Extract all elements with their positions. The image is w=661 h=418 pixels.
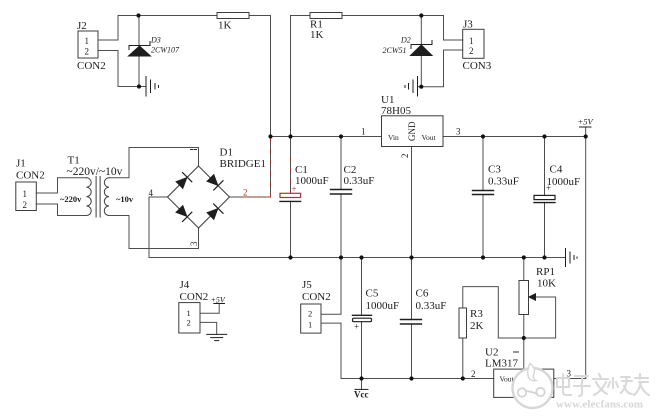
svg-text:2: 2 bbox=[400, 154, 410, 159]
wire J5 pin2 up to ground rail bbox=[321, 258, 341, 315]
svg-text:2CW51: 2CW51 bbox=[383, 46, 407, 55]
svg-text:C4: C4 bbox=[550, 164, 563, 176]
svg-text:1000uF: 1000uF bbox=[295, 175, 329, 187]
node gnd C5 bbox=[359, 255, 363, 259]
node rail C2 bbox=[339, 134, 343, 138]
svg-text:1K: 1K bbox=[218, 20, 232, 32]
capacitor C1 plates (highlighted red) bbox=[280, 193, 301, 201]
svg-text:D1: D1 bbox=[220, 147, 233, 159]
svg-text:0.33uF: 0.33uF bbox=[344, 175, 375, 187]
wire U2 ADJ pin bbox=[523, 338, 525, 369]
svg-text:2: 2 bbox=[85, 47, 90, 57]
wire J2 pin1 to top rail bbox=[98, 16, 118, 41]
svg-text:78H05: 78H05 bbox=[381, 105, 411, 117]
svg-text:CON2: CON2 bbox=[77, 60, 106, 72]
wire C3 bottom bbox=[482, 195, 484, 258]
svg-text:2: 2 bbox=[23, 200, 28, 210]
wire rail U1 pin1 bbox=[271, 136, 382, 138]
node +5V bbox=[584, 134, 588, 138]
bridge diode top-right bar bbox=[214, 181, 223, 190]
watermark char 电 bbox=[557, 374, 571, 395]
wire ADJ node horizontal bbox=[498, 337, 555, 339]
svg-text:1: 1 bbox=[23, 189, 28, 199]
node Vcc R3 bbox=[461, 376, 465, 380]
wire Vcc symbol drop bbox=[361, 379, 363, 390]
ground GND2 (earth, D2) bbox=[417, 77, 419, 97]
resistor R1 bbox=[310, 13, 342, 19]
wire red highlight bridge output bbox=[243, 196, 271, 198]
watermark char 发 bbox=[593, 374, 608, 395]
node D2 bottom bbox=[419, 85, 423, 89]
connector J4 bbox=[179, 303, 200, 333]
svg-text:0.33uF: 0.33uF bbox=[488, 176, 519, 188]
node rail C4 bbox=[542, 134, 546, 138]
wire C6 bottom bbox=[411, 324, 413, 379]
wire R1 left drop to C1 bbox=[291, 16, 311, 194]
bridge pin number 1 tick bbox=[191, 149, 197, 151]
wire R3 bottom bbox=[462, 338, 464, 379]
wire bridge top to transformer secondary top bbox=[109, 148, 199, 178]
svg-text:CON2: CON2 bbox=[16, 170, 45, 182]
watermark logo flame bbox=[528, 364, 536, 381]
wire Vcc bottom rail bbox=[341, 378, 494, 380]
potentiometer RP1 wiper arrow bbox=[529, 294, 536, 300]
wire J4 pin2 to ground bbox=[200, 322, 217, 334]
wire C4 bottom bbox=[544, 202, 546, 257]
svg-text:+: + bbox=[292, 184, 297, 194]
connector J2 bbox=[78, 31, 98, 58]
node gnd C1 bbox=[288, 255, 292, 259]
svg-text:3: 3 bbox=[189, 241, 199, 246]
svg-text:D2: D2 bbox=[400, 36, 411, 45]
wire C6 top bbox=[411, 258, 413, 320]
bridge diode bottom-left bar bbox=[183, 212, 192, 221]
bridge diode top-left bar bbox=[183, 173, 192, 182]
IC U1 78H05 box bbox=[382, 116, 444, 147]
power symbol +5V (top right) bar bbox=[580, 126, 592, 128]
watermark char 子 bbox=[574, 376, 590, 396]
watermark logo diagonal bbox=[526, 391, 538, 394]
connector J5 bbox=[301, 304, 321, 333]
wire U2 pin3 bbox=[554, 378, 586, 380]
connector J1 bbox=[16, 182, 37, 211]
svg-text:3: 3 bbox=[456, 127, 461, 137]
svg-text:2K: 2K bbox=[470, 320, 484, 332]
watermark char 烧 bbox=[608, 377, 632, 394]
node Vcc C6 bbox=[409, 376, 413, 380]
wire C5 bottom bbox=[361, 322, 363, 379]
svg-text:~220v/~10v: ~220v/~10v bbox=[67, 166, 123, 178]
wire R3 top branch bbox=[463, 287, 499, 338]
capacitor C2 plates bbox=[331, 190, 352, 195]
wire J2 pin2 to D3 bottom bbox=[98, 51, 139, 87]
svg-text:~220v: ~220v bbox=[60, 194, 82, 204]
wire C1 bottom bbox=[290, 201, 292, 257]
wire C4 top bbox=[544, 137, 546, 196]
watermark logo circle bbox=[513, 368, 553, 408]
bridge diode bottom-right bbox=[206, 208, 218, 220]
wire C3 top bbox=[482, 137, 484, 191]
svg-text:J4: J4 bbox=[180, 279, 190, 291]
resistor 1K (top left) bbox=[217, 13, 249, 19]
svg-text:CON3: CON3 bbox=[463, 60, 492, 72]
bridge diode top-left bbox=[175, 177, 187, 189]
svg-text:C5: C5 bbox=[366, 288, 379, 300]
potentiometer RP1 body bbox=[519, 281, 529, 315]
svg-text:1: 1 bbox=[308, 320, 312, 330]
wire C2 bottom bbox=[340, 194, 342, 258]
svg-text:0.33uF: 0.33uF bbox=[416, 300, 447, 312]
node gnd C2/J5 bbox=[339, 255, 343, 259]
svg-text:J1: J1 bbox=[16, 158, 26, 170]
svg-text:D3: D3 bbox=[150, 36, 161, 45]
svg-text:1000uF: 1000uF bbox=[547, 176, 581, 188]
svg-text:1: 1 bbox=[85, 36, 90, 46]
svg-text:Vout: Vout bbox=[422, 133, 437, 142]
svg-text:Vcc: Vcc bbox=[354, 390, 369, 400]
wire J3 pin1 bbox=[444, 16, 463, 41]
wire right vertical +5V to U2 pin3 bbox=[585, 137, 587, 379]
wire C5 top bbox=[361, 258, 363, 316]
watermark logo small circle left bbox=[518, 388, 526, 396]
svg-text:1000uF: 1000uF bbox=[366, 300, 400, 312]
bridge diode bottom-left bbox=[175, 205, 187, 217]
svg-text:GND: GND bbox=[407, 121, 417, 141]
wire R1 right to J3 branch bbox=[342, 15, 444, 17]
svg-text:C3: C3 bbox=[488, 164, 501, 176]
U2 ADJ pin1 tick bbox=[514, 351, 519, 353]
ground GND4 (signal ground, J4) bbox=[207, 333, 227, 335]
svg-text:+: + bbox=[354, 322, 359, 332]
wire red highlight rise to rail bbox=[270, 137, 272, 197]
wire RP1 bottom bbox=[523, 315, 525, 339]
svg-text:CON2: CON2 bbox=[180, 291, 209, 303]
svg-text:Vin: Vin bbox=[388, 133, 399, 142]
node top rail / D3 bbox=[136, 13, 140, 17]
node Vcc C5 bbox=[359, 376, 363, 380]
svg-text:J3: J3 bbox=[463, 19, 473, 31]
IC U2 LM317 box bbox=[494, 369, 554, 397]
svg-text:J2: J2 bbox=[77, 20, 87, 32]
svg-text:10K: 10K bbox=[537, 278, 556, 290]
node rail x270 bbox=[268, 134, 272, 138]
power symbol Vcc bar bbox=[355, 388, 368, 390]
wire J1 pin1 to primary top bbox=[36, 178, 86, 193]
wire red highlight C1 feed bbox=[290, 158, 292, 193]
node gnd C4 bbox=[542, 255, 546, 259]
svg-text:T1: T1 bbox=[68, 155, 80, 167]
transformer T1 secondary winding bbox=[104, 178, 109, 216]
node D3 bottom bbox=[137, 84, 141, 88]
node gnd U1pin2/C6 bbox=[409, 255, 413, 259]
svg-text:1K: 1K bbox=[310, 29, 324, 41]
svg-text:www.elecfans.com: www.elecfans.com bbox=[556, 399, 643, 411]
transformer T1 primary winding bbox=[87, 177, 110, 218]
svg-text:2: 2 bbox=[308, 309, 312, 319]
svg-text:1: 1 bbox=[187, 308, 191, 318]
wire node2 red rise bbox=[270, 137, 272, 198]
wire D2 bottom bbox=[420, 56, 422, 87]
node ADJ bbox=[522, 336, 526, 340]
svg-text:2CW107: 2CW107 bbox=[151, 46, 180, 55]
wire stub to ground GND2 bbox=[418, 86, 422, 88]
wire U1 pin2 to ground rail bbox=[411, 147, 413, 258]
svg-text:2: 2 bbox=[469, 46, 474, 56]
wire J1 pin2 to primary bottom bbox=[36, 204, 86, 216]
capacitor C6 plates bbox=[401, 320, 422, 325]
connector J3 bbox=[463, 29, 484, 58]
svg-text:RP1: RP1 bbox=[536, 266, 555, 278]
capacitor C4 plates bbox=[534, 195, 555, 202]
bridge D1 diamond edges bbox=[168, 166, 230, 228]
transformer T1 core bbox=[95, 177, 97, 218]
watermark char 友 bbox=[634, 374, 649, 395]
capacitor C5 plates bbox=[353, 315, 372, 321]
ground GND3 (earth, right end of ground rail) bbox=[565, 249, 567, 267]
wire RP1 top to ground rail bbox=[523, 258, 525, 281]
node gnd RP1 bbox=[522, 255, 526, 259]
svg-text:C6: C6 bbox=[416, 288, 429, 300]
svg-text:1: 1 bbox=[469, 36, 474, 46]
wire bridge bottom node 3 to secondary bottom bbox=[109, 216, 199, 249]
svg-text:1: 1 bbox=[361, 127, 366, 137]
wire top rail to 1K bbox=[118, 15, 217, 17]
svg-text:2: 2 bbox=[243, 188, 248, 198]
svg-text:+: + bbox=[546, 183, 551, 193]
resistor R3 bbox=[459, 308, 467, 338]
bridge diode top-right bbox=[206, 174, 218, 186]
svg-text:R3: R3 bbox=[470, 308, 483, 320]
svg-text:LM317: LM317 bbox=[485, 358, 519, 370]
wire RP1 wiper bbox=[534, 297, 556, 338]
wire 1K right to drop bbox=[249, 16, 271, 137]
wire C2 top bbox=[340, 137, 342, 190]
wire J3 pin2 to D2 bottom bbox=[421, 50, 462, 87]
svg-text:+5V: +5V bbox=[211, 296, 226, 305]
wire bridge right vertex node 2 bbox=[230, 196, 271, 198]
svg-text:2: 2 bbox=[471, 369, 476, 379]
ground GND1 (earth, D3) bbox=[145, 77, 147, 97]
node gnd C3 bbox=[481, 255, 485, 259]
wire stub to ground GND1 bbox=[139, 86, 146, 88]
svg-text:J5: J5 bbox=[302, 279, 312, 291]
wire ground rail bbox=[149, 257, 566, 259]
bridge diode bottom-right bar bbox=[214, 204, 223, 213]
zener diode D2 bbox=[411, 45, 433, 56]
power symbol +5V (J4) bar bbox=[214, 303, 225, 305]
svg-text:CON2: CON2 bbox=[302, 291, 331, 303]
wire +5V drop bbox=[585, 127, 587, 137]
zener diode D3 bbox=[129, 46, 151, 56]
wire J5 pin1 down to Vcc rail bbox=[321, 323, 341, 378]
node top rail / D2 bbox=[419, 13, 423, 17]
wire D3 bottom bbox=[138, 56, 140, 87]
svg-text:~10v: ~10v bbox=[116, 194, 134, 204]
wire D3 top bbox=[138, 16, 140, 46]
watermark logo small circle right bbox=[536, 388, 544, 396]
svg-text:2: 2 bbox=[187, 318, 191, 328]
node rail C3 bbox=[481, 134, 485, 138]
svg-text:4: 4 bbox=[149, 188, 154, 198]
wire D2 top bbox=[420, 16, 422, 45]
wire J4 pin1 to +5V bbox=[200, 304, 219, 314]
wire rail U1 pin3 to +5V bbox=[443, 136, 586, 138]
wire bridge left vertex node 4 bbox=[149, 197, 168, 258]
capacitor C3 plates bbox=[473, 191, 494, 195]
node rail C1 bbox=[288, 134, 292, 138]
svg-text:BRIDGE1: BRIDGE1 bbox=[220, 158, 266, 170]
svg-text:+5V: +5V bbox=[578, 117, 595, 127]
